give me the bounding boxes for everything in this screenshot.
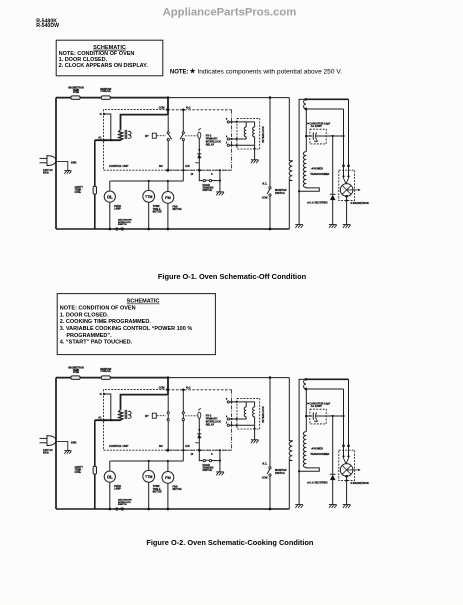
relay RY-2 coil (primary interlock relay) xyxy=(198,408,201,410)
transformer T1 core xyxy=(124,130,126,139)
fuse F3 CAVITY TEMP. FUSE xyxy=(93,466,96,474)
svg-text:FUSE: FUSE xyxy=(73,372,80,374)
terminal NO of control unit xyxy=(166,449,169,452)
label: CAPACITOR 0.9uF AC 2100V xyxy=(307,402,310,405)
svg-text:POWER: POWER xyxy=(314,448,323,451)
svg-text:NO: NO xyxy=(159,445,163,448)
terminal COM of control unit xyxy=(166,388,169,391)
wire: door switch to ground branch xyxy=(219,450,221,472)
door sensing switch loop xyxy=(199,170,203,180)
wire: top supply rail (L) xyxy=(56,97,168,99)
label: H.V. RECTIFIER xyxy=(307,201,310,204)
svg-text:TRANSFORMER: TRANSFORMER xyxy=(310,173,329,176)
motor TTM turntable motor xyxy=(148,181,150,190)
relay RY contact xyxy=(167,132,169,134)
wire: top rail thin section to power transformer xyxy=(168,377,289,379)
svg-text:CONTROL UNIT: CONTROL UNIT xyxy=(109,164,129,168)
svg-text:1. DOOR CLOSED.: 1. DOOR CLOSED. xyxy=(60,312,109,318)
svg-text:4. “START” PAD TOUCHED.: 4. “START” PAD TOUCHED. xyxy=(60,340,133,346)
ground: magnetron xyxy=(343,224,351,226)
svg-text:LVR: LVR xyxy=(185,165,190,168)
relay RY-2 coil (primary interlock relay) xyxy=(198,128,201,130)
svg-text:NOTE: CONDITION OF OVEN: NOTE: CONDITION OF OVEN xyxy=(59,51,135,57)
wire: interlock pin 4 line xyxy=(230,138,247,140)
svg-text:SWITCH: SWITCH xyxy=(118,224,127,226)
svg-text:COM: COM xyxy=(159,387,165,390)
label: CAPACITOR 0.9uF AC 2100V xyxy=(307,122,310,125)
svg-text:COM: COM xyxy=(159,107,165,110)
oven schematic O-1 (off condition) xyxy=(40,87,369,231)
wire: RY-2 contact branch upper xyxy=(182,110,184,132)
magnetron filament terminals xyxy=(342,164,345,167)
svg-text:TTM: TTM xyxy=(145,475,152,479)
svg-text:NO: NO xyxy=(159,165,163,168)
svg-text:SWITCH: SWITCH xyxy=(203,189,213,192)
svg-text:H.V. RECTIFIER: H.V. RECTIFIER xyxy=(309,202,327,205)
magnetron tube body xyxy=(340,464,353,477)
wire: top rail thin section to power transformer xyxy=(168,97,289,99)
transformer T1 core xyxy=(124,410,126,419)
wire: filament lead FA xyxy=(306,108,344,110)
svg-text:GRN: GRN xyxy=(71,162,77,165)
wire: COM to RY contact xyxy=(167,116,169,132)
svg-text:AC 2100V: AC 2100V xyxy=(311,405,322,408)
diode D1 of RY-2 coil xyxy=(197,433,201,435)
control unit dashed enclosure xyxy=(104,110,232,171)
svg-text:NOTE:: NOTE: xyxy=(170,69,189,75)
interlock solenoid L2 xyxy=(254,402,256,407)
ground: transformer secondary xyxy=(295,504,303,506)
ground: door switch branch xyxy=(216,471,224,473)
motor FM fan motor xyxy=(167,181,169,192)
terminal N of control unit xyxy=(103,393,105,395)
svg-text:SWITCH: SWITCH xyxy=(118,504,127,506)
svg-text:N: N xyxy=(100,113,102,116)
magnetron tube body xyxy=(340,184,353,197)
transformer T2 filament winding xyxy=(305,98,308,101)
svg-text:FUSE 8A.: FUSE 8A. xyxy=(101,370,112,373)
wire: transformer secondary return / chassis line xyxy=(298,99,300,225)
motor OL oven lamp xyxy=(109,181,111,191)
fuse F1 MAGNETRON TEMP. FUSE xyxy=(71,96,80,100)
svg-text:SWITCH: SWITCH xyxy=(275,472,285,475)
interlock connector terminals xyxy=(227,121,229,123)
svg-text:SWITCH: SWITCH xyxy=(203,469,213,472)
svg-text:R-540DW: R-540DW xyxy=(36,23,59,29)
door sensing switch loop xyxy=(199,450,203,460)
wire: transformer secondary return / chassis line xyxy=(298,379,300,505)
wire: left drop from rail to plug and bottom rail (N) xyxy=(55,378,57,509)
fuse F2 MONITOR FUSE 8A xyxy=(101,376,110,380)
ground: HV rectifier xyxy=(329,224,337,226)
svg-text:RY: RY xyxy=(145,414,149,418)
svg-text:INTERLOCK: INTERLOCK xyxy=(261,126,265,142)
svg-text:OL: OL xyxy=(107,474,113,479)
transformer T1 low voltage transformer primary (zigzag) xyxy=(119,410,123,420)
svg-text:N: N xyxy=(100,393,102,396)
svg-text:MOTOR: MOTOR xyxy=(153,210,162,213)
wire: oven lamp feeder xyxy=(110,460,184,462)
transformer T1 low voltage transformer primary (zigzag) xyxy=(119,130,123,140)
wire: A1 bold lead to LVT primary xyxy=(95,419,121,421)
wire: HV secondary bottom return xyxy=(299,467,319,471)
wire: HV secondary feed xyxy=(305,389,307,432)
capacitor C1 high voltage capacitor xyxy=(305,135,308,138)
ground: door switch branch xyxy=(216,191,224,193)
svg-text:60Hz: 60Hz xyxy=(43,451,49,454)
svg-text:MAGNETRON: MAGNETRON xyxy=(353,482,369,485)
svg-text:MOTOR: MOTOR xyxy=(173,208,182,211)
wire: A1 bold lead to LVT primary xyxy=(95,139,121,141)
transformer T2 filament winding xyxy=(305,378,308,381)
note box: schematic cooking condition xyxy=(57,294,215,355)
wire: filament lead F (bold) xyxy=(306,378,349,380)
svg-text:TTM: TTM xyxy=(145,195,152,199)
wire: RY contact to NO terminal xyxy=(167,141,169,171)
transformer T2 power transformer primary xyxy=(289,378,292,442)
svg-text:Figure O-2. Oven Schematic-Coo: Figure O-2. Oven Schematic-Cooking Condi… xyxy=(146,538,314,547)
wire: monitor switch branch xyxy=(269,96,272,99)
magnetron antenna output xyxy=(347,469,359,471)
fuse F2 MONITOR FUSE 8A xyxy=(101,96,110,100)
svg-text:2. CLOCK APPEARS ON DISPLAY.: 2. CLOCK APPEARS ON DISPLAY. xyxy=(59,63,149,69)
svg-text:FUSE: FUSE xyxy=(75,192,82,194)
secondary interlock switch (in neutral rail) xyxy=(116,228,118,230)
wire: filament lead FA xyxy=(306,388,344,390)
ground: mains earth xyxy=(64,450,71,452)
svg-text:COM: COM xyxy=(262,197,268,200)
polarity tick xyxy=(195,162,199,164)
wire: GRN earth wire from plug xyxy=(56,442,68,451)
svg-text:FUSE: FUSE xyxy=(73,92,80,94)
label: MAGNETRON xyxy=(350,482,353,485)
control unit dashed enclosure xyxy=(104,390,232,451)
svg-text:TRANSFORMER: TRANSFORMER xyxy=(310,453,329,456)
svg-text:NOTE: CONDITION OF OVEN: NOTE: CONDITION OF OVEN xyxy=(60,306,136,312)
magnetron filament xyxy=(344,178,347,184)
svg-text:OL: OL xyxy=(107,194,113,199)
magnetron V1 enclosure xyxy=(339,450,355,480)
relay RY contact xyxy=(167,412,169,414)
svg-text:N.O.: N.O. xyxy=(186,107,191,110)
wire: cavity fuse branch xyxy=(94,140,96,229)
svg-text:FUSE: FUSE xyxy=(75,472,82,474)
capacitor C1 high voltage capacitor xyxy=(305,415,308,418)
node: junction of RY-2 contact branch xyxy=(182,389,185,392)
svg-text:H.V. RECTIFIER: H.V. RECTIFIER xyxy=(309,482,327,485)
svg-text:MOTOR: MOTOR xyxy=(173,488,182,491)
wire: interlock pin 3 line xyxy=(230,144,255,146)
transformer T1 secondary loops xyxy=(128,411,131,418)
relay RY-2 contact (primary interlock) xyxy=(182,412,184,414)
wire: N terminal lead inside control unit xyxy=(104,394,111,420)
terminal NO of control unit xyxy=(166,169,169,172)
svg-text:Figure O-1. Oven Schematic-Off: Figure O-1. Oven Schematic-Off Condition xyxy=(158,272,307,281)
transformer T1 secondary loops xyxy=(128,131,131,138)
transformer T2 HV secondary winding xyxy=(303,152,306,188)
svg-text:RY: RY xyxy=(145,134,149,138)
magnetron filament terminals xyxy=(342,444,345,447)
wire: HV secondary feed xyxy=(305,109,307,152)
wire: dash-dot drop to interlock connector xyxy=(231,110,233,170)
wire: dash-dot rail NO to interlock connector xyxy=(168,449,232,451)
transformer T2 HV secondary winding xyxy=(303,432,306,468)
svg-text:3. VARIABLE COOKING CONTROL: 3. VARIABLE COOKING CONTROL “POWER 100 % xyxy=(60,326,193,332)
wire: left drop from rail to plug and bottom rail (N) xyxy=(55,98,57,229)
wire: bottom neutral rail xyxy=(56,508,289,510)
wire: interlock pin 5 line xyxy=(230,121,255,123)
svg-text:MAGNETRON: MAGNETRON xyxy=(353,202,369,205)
svg-text:2. COOKING TIME PROGRAMMED.: 2. COOKING TIME PROGRAMMED. xyxy=(60,319,152,325)
wire: bold COM loop (rail to LVT primary) xyxy=(121,378,169,410)
svg-text:N.C.: N.C. xyxy=(262,182,267,185)
svg-text:60Hz: 60Hz xyxy=(43,171,49,174)
svg-text:SWITCH: SWITCH xyxy=(275,192,285,195)
svg-text:N.O.: N.O. xyxy=(186,387,191,390)
terminal COM of control unit xyxy=(166,108,169,111)
plug prong upper xyxy=(40,157,48,159)
svg-text:FM: FM xyxy=(165,475,171,480)
svg-text:FUSE 8A.: FUSE 8A. xyxy=(101,90,112,93)
diode D2 high voltage rectifier xyxy=(332,136,334,194)
AC plug P1 xyxy=(47,156,56,166)
svg-text:RELAY: RELAY xyxy=(206,423,215,427)
wire: RY-2 coil cathode line xyxy=(198,418,200,450)
ground: magnetron xyxy=(343,504,351,506)
wire: RY-2 contact branch lower xyxy=(182,421,184,451)
monitor switch SW1 xyxy=(269,187,271,189)
motor OL oven lamp xyxy=(109,461,111,471)
terminal N of control unit xyxy=(103,113,105,115)
wire: N terminal lead inside control unit xyxy=(104,114,111,140)
interlock connector terminals xyxy=(227,401,229,403)
svg-text:RELAY: RELAY xyxy=(206,143,215,147)
ground: mains earth xyxy=(64,170,71,172)
wire: cavity fuse branch xyxy=(94,420,96,509)
wire: relay line COM to interlock (N.O.) xyxy=(168,389,232,391)
polarity tick xyxy=(195,442,199,444)
svg-text:FM: FM xyxy=(165,195,171,200)
interlock unit dashed enclosure xyxy=(237,399,260,429)
motor TTM turntable motor xyxy=(148,461,150,470)
svg-text:LAMP: LAMP xyxy=(114,487,121,490)
ground: transformer secondary xyxy=(295,224,303,226)
magnetron cathode node xyxy=(345,475,348,478)
svg-text:POWER: POWER xyxy=(314,168,323,171)
dashed actuator link RY-2 coil to contact xyxy=(185,135,197,137)
secondary interlock switch (in neutral rail) xyxy=(116,508,118,510)
wire: relay line COM to interlock (N.O.) xyxy=(168,109,232,111)
diode D1 of RY-2 coil xyxy=(197,153,201,155)
plug prong lower xyxy=(40,162,48,164)
wire: dash-dot rail NO to interlock connector xyxy=(168,169,232,171)
wire: interlock pin 3 line xyxy=(230,424,255,426)
plug prong upper xyxy=(40,437,48,439)
wire: GRN earth wire from plug xyxy=(56,162,68,171)
svg-text:COM: COM xyxy=(262,477,268,480)
AC plug P1 xyxy=(47,436,56,446)
wire: interlock pin 4 line xyxy=(230,418,247,420)
wire: bold COM loop (rail to LVT primary) xyxy=(121,98,169,130)
interlock solenoid L1 xyxy=(245,402,247,407)
wire: interlock ground leg xyxy=(254,137,256,160)
ground: interlock unit xyxy=(251,439,259,441)
relay RY-2 contact (primary interlock) xyxy=(182,132,184,134)
label: H.V. RECTIFIER xyxy=(307,481,310,484)
magnetron V1 enclosure xyxy=(339,170,355,200)
note box: schematic off condition xyxy=(56,40,163,76)
wire: RY contact to NO terminal xyxy=(167,421,169,451)
monitor switch SW1 xyxy=(269,467,271,469)
svg-text:LAMP: LAMP xyxy=(114,207,121,210)
interlock solenoid L1 xyxy=(245,122,247,127)
wire: interlock pin 5 line xyxy=(230,401,255,403)
svg-text:INTERLOCK: INTERLOCK xyxy=(261,406,265,422)
svg-text:AppliancePartsPros.com: AppliancePartsPros.com xyxy=(163,6,297,18)
svg-text:LVR: LVR xyxy=(185,445,190,448)
svg-text:MOTOR: MOTOR xyxy=(153,490,162,493)
label: POWER TRANSFORMER xyxy=(311,167,314,170)
wire: RY-2 contact branch lower xyxy=(182,141,184,171)
wire: monitor switch branch xyxy=(269,376,272,379)
dashed actuator link RY coil to contact xyxy=(157,135,166,137)
svg-text:GRN: GRN xyxy=(71,442,77,445)
wire: bottom neutral rail xyxy=(56,228,289,230)
svg-text:AC 2100V: AC 2100V xyxy=(311,125,322,128)
motor FM fan motor xyxy=(167,461,169,472)
label: POWER TRANSFORMER xyxy=(311,447,314,450)
wire: oven lamp feeder xyxy=(110,180,184,182)
wire: HV secondary bottom return xyxy=(299,187,319,191)
ground: interlock unit xyxy=(251,159,259,161)
fuse F1 MAGNETRON TEMP. FUSE xyxy=(71,376,80,380)
svg-text:Indicates components with pote: Indicates components with potential abov… xyxy=(197,68,342,75)
plug prong lower xyxy=(40,442,48,444)
wire: RY-2 contact branch upper xyxy=(182,390,184,412)
wire: door switch to ground branch xyxy=(219,170,221,192)
dashed actuator link RY-2 coil to contact xyxy=(185,415,197,417)
magnetron cathode node xyxy=(345,195,348,198)
svg-text:CONTROL UNIT: CONTROL UNIT xyxy=(109,444,129,448)
magnetron filament xyxy=(344,458,347,464)
ground: HV rectifier xyxy=(329,504,337,506)
wire: COM to RY contact xyxy=(167,396,169,412)
svg-text:1. DOOR CLOSED.: 1. DOOR CLOSED. xyxy=(59,57,108,63)
svg-text:N.C.: N.C. xyxy=(262,462,267,465)
wire: dash-dot drop to interlock connector xyxy=(231,390,233,450)
oven schematic O-2 (cooking condition) xyxy=(40,367,369,511)
wire: top supply rail (L) xyxy=(56,377,168,379)
transformer T2 power transformer primary xyxy=(289,98,292,162)
interlock solenoid L2 xyxy=(254,122,256,127)
wire: RY-2 coil cathode line xyxy=(198,138,200,170)
dashed actuator link RY coil to contact xyxy=(157,415,166,417)
wire: interlock ground leg xyxy=(254,417,256,440)
magnetron antenna output xyxy=(347,189,359,191)
wire: filament lead F (bold) xyxy=(306,98,349,100)
interlock unit dashed enclosure xyxy=(237,119,260,149)
fuse F3 CAVITY TEMP. FUSE xyxy=(93,186,96,194)
label: MAGNETRON xyxy=(350,202,353,205)
diode D2 high voltage rectifier xyxy=(332,416,334,474)
node: junction of RY-2 contact branch xyxy=(182,109,185,112)
svg-text:PROGRAMMED”.: PROGRAMMED”. xyxy=(66,333,112,339)
